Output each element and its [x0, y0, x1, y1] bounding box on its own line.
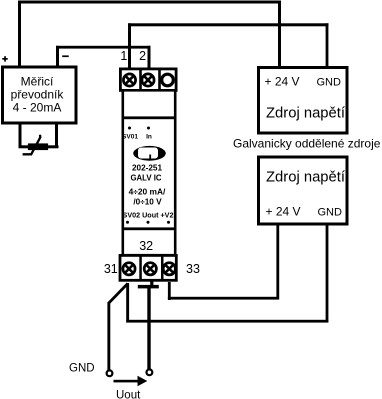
- svg-text:GND: GND: [318, 207, 343, 219]
- svg-text:32: 32: [139, 239, 153, 253]
- svg-text:GND: GND: [317, 77, 342, 89]
- svg-text:Zdroj napětí: Zdroj napětí: [266, 106, 346, 122]
- svg-text:In: In: [146, 134, 152, 141]
- face bottom dot 2: [147, 221, 150, 224]
- wire horizontal to supply2 GND: [126, 320, 328, 323]
- module bottom terminal block: [120, 255, 176, 280]
- label +: [2, 56, 7, 61]
- module divider upper: [122, 116, 177, 119]
- supply1 box Zdroj napetí: [259, 68, 348, 134]
- svg-text:Měřicí: Měřicí: [21, 75, 54, 89]
- screw terminal 32: [144, 263, 156, 275]
- logo ellipse: [133, 146, 166, 161]
- wire terminal 31 diagonal to GND post: [109, 284, 128, 304]
- screw terminal 31: [123, 263, 135, 275]
- wire vertical down to terminal 2: [148, 46, 151, 69]
- module top terminal block: [120, 69, 176, 91]
- wire terminal 32 down to Uout post: [147, 288, 150, 370]
- wire vertical to supply1 GND: [326, 23, 329, 66]
- sensor element body: [29, 145, 47, 150]
- svg-text:33: 33: [186, 262, 200, 276]
- svg-text:+ 24 V: + 24 V: [265, 75, 300, 89]
- bottom block divider 2: [161, 255, 164, 281]
- face bottom dot 3: [167, 221, 170, 224]
- bottom block divider 1: [139, 255, 142, 281]
- wire vertical supply2 GND: [326, 226, 329, 323]
- screw terminal 1: [123, 74, 135, 86]
- face bottom dot 1: [126, 221, 129, 224]
- transmitter box Mericí prevodník: [3, 67, 77, 123]
- top block divider 1: [139, 68, 142, 91]
- module face dot left: [128, 127, 131, 130]
- sensor wire left stub: [19, 124, 22, 147]
- wire terminal 33 down: [168, 282, 171, 300]
- screw terminal 33: [163, 263, 175, 275]
- Uout output post: [147, 369, 153, 375]
- screw terminal 2: [142, 74, 154, 86]
- top block divider 2: [158, 68, 161, 91]
- wire top: transmitter + to supply1 +24V (horizontal): [18, 1, 281, 4]
- svg-text:Zdroj napětí: Zdroj napětí: [266, 170, 346, 186]
- svg-text:GALV IC: GALV IC: [130, 174, 161, 183]
- svg-text:Uout: Uout: [116, 390, 141, 399]
- wire vertical to GND post: [107, 302, 110, 371]
- wire vertical from transmitter -: [56, 46, 59, 67]
- wire: transmitter - to terminal 2 (horizontal): [56, 46, 151, 49]
- module divider lower: [122, 227, 177, 230]
- svg-text:/0÷10 V: /0÷10 V: [133, 198, 162, 207]
- svg-text:4 - 20mA: 4 - 20mA: [13, 101, 62, 115]
- sensor diagonal stroke: [23, 135, 41, 155]
- svg-text:4÷20 mA/: 4÷20 mA/: [129, 187, 166, 197]
- supply2 box Zdroj napetí: [259, 157, 348, 224]
- wire horizontal to supply2 +24V: [168, 297, 279, 300]
- svg-text:2: 2: [139, 49, 146, 63]
- svg-text:31: 31: [104, 262, 118, 276]
- terminal 32 clamp bracket: [138, 285, 159, 289]
- label -: [62, 55, 68, 57]
- GND output post: [107, 370, 113, 376]
- arrow Uout direction: [114, 376, 148, 386]
- svg-text:SV01: SV01: [122, 134, 138, 141]
- svg-text:SV02 Uout +V2: SV02 Uout +V2: [123, 211, 174, 220]
- svg-text:GND: GND: [69, 363, 95, 375]
- module body: [123, 90, 175, 255]
- svg-text:Galvanicky oddělené zdroje: Galvanicky oddělené zdroje: [233, 137, 381, 151]
- svg-text:převodník: převodník: [11, 88, 65, 102]
- wire vertical to supply1 +24V: [278, 1, 281, 68]
- wire terminal 31 down: [126, 283, 129, 323]
- sensor wire horizontal: [19, 145, 59, 148]
- screw terminal unused: [162, 74, 174, 86]
- svg-text:+ 24 V: + 24 V: [266, 205, 301, 219]
- module face dot right: [147, 127, 150, 130]
- wire vertical down to terminal 1: [128, 23, 131, 69]
- wire: terminal 1 to supply1 GND (horizontal): [128, 23, 329, 26]
- wire vertical from transmitter +: [18, 1, 21, 67]
- sensor wire right stub: [55, 124, 58, 147]
- svg-text:202-251: 202-251: [132, 164, 162, 173]
- svg-text:1: 1: [120, 49, 127, 63]
- wire vertical supply2 +24V: [276, 226, 279, 300]
